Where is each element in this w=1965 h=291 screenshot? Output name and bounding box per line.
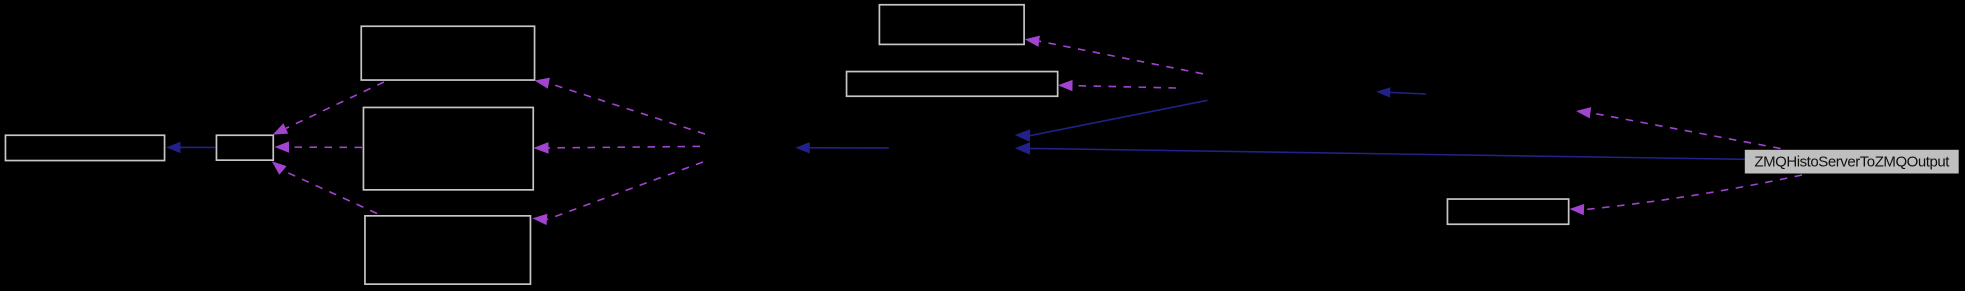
purple dashed edge P6 box5 to box2 — [272, 161, 377, 213]
class node box5 (bottom of left column) — [365, 216, 531, 284]
purple dashed edge P4 box3 to box2 — [273, 82, 384, 135]
purple dashed edge P9 from ZMQHistoServerToZMQOutput — [1576, 107, 1781, 148]
class node box2 (small) — [216, 135, 273, 160]
blue inheritance edge B (diagonal) — [1015, 100, 1208, 142]
class node box3 (top of left column) — [361, 26, 534, 80]
purple dashed edge P7 to box6 — [1025, 36, 1203, 74]
purple dashed edge P3 to box5 — [533, 162, 704, 225]
blue inheritance edge D (short) — [1376, 87, 1426, 97]
purple dashed edge P2 to box4 — [533, 142, 700, 154]
purple dashed edge P5 box4 to box2 — [275, 141, 363, 152]
svg-text:ZMQHistoServerToZMQOutput: ZMQHistoServerToZMQOutput — [1754, 154, 1950, 171]
class node box6 (top centre) — [879, 5, 1024, 45]
purple dashed edge P8 to box7 — [1058, 80, 1176, 91]
purple dashed edge P1 to box3 — [535, 78, 705, 134]
class node box1 (far left) — [5, 135, 164, 160]
class node box8 (bottom right) — [1447, 199, 1568, 224]
class node box4 (middle of left column) — [363, 107, 533, 189]
class node box7 (wide centre) — [847, 72, 1058, 97]
blue inheritance edge E: box2 to box1 — [166, 142, 216, 153]
blue inheritance edge C (long, from ZMQHistoServerToZMQOutput) — [1015, 142, 1745, 159]
main node ZMQHistoServerToZMQOutput (grey filled) — [1745, 150, 1959, 174]
blue inheritance edge A (centre horizontal) — [795, 142, 889, 153]
purple dashed edge P10 ZMQHistoServerToZMQOutput to box8 — [1570, 175, 1803, 215]
